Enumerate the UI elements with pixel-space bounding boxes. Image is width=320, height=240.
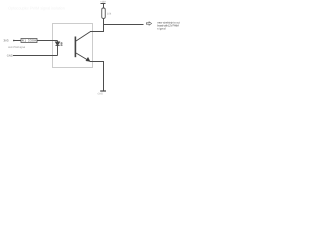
wire emitter to ground — [103, 62, 105, 92]
transistor emitter arrow — [86, 57, 90, 61]
svg-text:LED PWM signal: LED PWM signal — [8, 46, 25, 49]
svg-text:GND: GND — [98, 93, 104, 96]
node pin square — [13, 40, 14, 41]
wire resistor to LED anode — [37, 40, 58, 42]
resistor R2 — [102, 8, 106, 19]
svg-text:signal: signal — [157, 28, 166, 31]
wire label to resistor — [14, 40, 22, 42]
output note text — [157, 22, 180, 31]
resistor R1 — [21, 39, 37, 43]
svg-text:+12V: +12V — [100, 1, 106, 4]
svg-text:GND: GND — [7, 55, 13, 58]
LED emission arrows — [60, 42, 63, 46]
svg-text:Optocoupler PWM signal isolati: Optocoupler PWM signal isolation — [8, 5, 65, 10]
power symbol +12V — [101, 4, 106, 9]
wire collector riser — [103, 19, 105, 32]
svg-text:R1 330R: R1 330R — [22, 39, 37, 43]
wire to output arrow — [103, 24, 144, 26]
wire collector pin — [90, 31, 104, 33]
ground symbol — [100, 90, 106, 92]
transistor Q1 phototransistor — [75, 32, 90, 62]
op-amp U1 optocoupler body — [53, 24, 93, 68]
svg-text:10k: 10k — [107, 12, 112, 15]
svg-text:3V3: 3V3 — [4, 39, 9, 43]
LED D1 of optocoupler — [56, 41, 60, 56]
wire LED cathode to GND label — [13, 55, 58, 57]
wire emitter pin — [90, 61, 104, 63]
hierarchical label arrow — [146, 22, 151, 25]
